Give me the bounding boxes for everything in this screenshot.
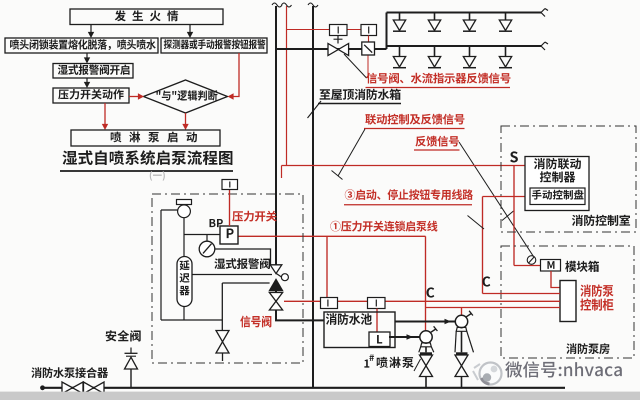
pipe: drain run [161,319,223,321]
pipe: branch line 2 [387,45,542,47]
red wire: pressure switch interlock [238,235,426,237]
dashed room: 消防控制室 [501,126,636,232]
decision diamond: 与 逻辑判断 [144,80,228,113]
red wire: module 2 to level sensor L [376,309,378,333]
flowchart box: 发生火情 [70,9,223,25]
box: fire pump control cabinet [560,281,576,322]
box: 消防联动控制器 [525,157,589,211]
sprinkler head row2 #1 [399,47,401,57]
pump 2 (spray pump) [455,315,467,327]
red label: 消防泵 [580,284,613,296]
red wire: box5 down to box6 [104,103,106,126]
red underline [366,87,511,89]
leader: 联动控制及反馈信号 to signal bus [338,129,365,176]
leader to pump 1 [414,359,421,371]
red wire: box3 down to diamond [232,53,239,97]
label: 消防泵房 [566,343,609,354]
monitor module A [330,25,348,36]
label S [510,151,518,162]
pipe: tank to pump 2 suction [395,321,455,323]
pipe: drain drop [160,210,162,320]
wet alarm valve [270,265,282,274]
red wire: manual panel line [483,196,531,198]
label: 安全阀 [106,330,141,341]
label: 模块箱 [565,261,599,272]
pressure gauge [199,241,215,257]
label C (conduit) [426,287,434,297]
title underline [60,170,233,172]
sprinkler head row1 #4 [505,13,507,20]
label C (conduit) 2 [482,276,490,286]
box: M module [541,260,561,272]
leader: 反馈信号 to module 2 [459,142,534,257]
flowchart box: 喷淋泵启动 [71,130,220,146]
red label: 控制柜 [580,299,613,311]
red label: 压力开关 [232,211,277,222]
leader tick for ③ line [468,216,485,230]
delay chamber 延迟器 [177,257,192,307]
red wire: to M box [514,265,541,267]
flowchart box: 压力开关动作 [53,88,129,103]
pipe break end 2 [541,42,548,50]
red drop to pump 2 [461,308,463,316]
pump 1 (1# spray pump) [420,331,432,343]
wire: box2 to box4 [86,53,88,60]
drain valve [216,331,229,342]
pipe: main riser to roof tank [312,6,314,388]
red underline [364,128,465,130]
red stub: indicator to module B [368,36,370,43]
pipe: station outlet to main riser and tank [276,310,325,320]
red wire: monitors to drop [287,29,362,31]
red wire: box5 to diamond [129,96,139,98]
leader: signal valve annotation [344,54,367,78]
red stub at riser [281,166,283,179]
pipe: branch riser [386,13,388,50]
red wire: manual panel drop [482,197,484,294]
title: 湿式自喷系统启泵流程图 [62,150,232,165]
label: 1#喷淋泵 [364,359,369,367]
pipe: sprinkler riser [275,6,277,265]
module 2 (level) [368,298,386,309]
signal valve (butterfly) on branch feed [328,44,338,56]
pipe: bell to drain drop [161,209,178,211]
siamese connection valves: 消防水泵接合器 [62,382,73,394]
sprinkler head row2 #4 [505,47,507,57]
stem: drain valve [221,283,223,331]
leader tick [502,211,514,221]
pipe break symbols [272,3,282,7]
flowchart box: 湿式报警阀开启 [53,64,133,79]
red leader: flow indicator annotation [367,56,369,79]
safety valve 安全阀 [130,348,132,354]
flowchart box: 探测器或手动报警按钮报警 [161,38,267,53]
signal valve (riser) [269,293,282,302]
module above station [222,180,238,190]
pipe: to pressure switch [184,234,220,236]
red label: ③启动、停止按钮专用线路 [345,189,473,200]
module symbol ② [527,256,536,265]
dashed box: alarm valve station [152,194,303,363]
faint mark [150,171,165,181]
pipe: delay chamber drain [183,307,185,321]
label: 消防控制室 [572,215,630,226]
underline [318,103,401,105]
label: 湿式报警阀 [214,258,270,269]
valve under pump 2 [455,355,468,366]
red wire: drop to module 1 [326,236,328,297]
box: level sensor L [369,332,390,347]
pipe: delay chamber to alarm valve [192,274,272,276]
sprinkler head row1 #3 [469,13,471,20]
leader slash on main riser [308,101,322,118]
module 1 (signal valve) [321,298,338,309]
label: 至屋顶消防水箱 [320,89,401,100]
sprinkler head row2 #2 [434,47,436,57]
label BP [209,219,222,227]
pipe: gauge to alarm valve [215,249,271,265]
monitor module B [361,25,377,36]
red bus: start/stop line to cabinet [483,293,561,295]
sprinkler head row1 #1 [399,13,401,20]
pipe break end 1 [541,9,548,17]
pipe: branch feed horizontal [276,48,387,50]
sprinkler head row2 #3 [469,47,471,57]
red wire: diamond down to box6 [185,113,187,126]
red label: 联动控制及反馈信号 [365,114,464,125]
wire: box1 to box3 [189,25,191,35]
pipe: pump 1 discharge [425,347,427,353]
pipe: bottom header [42,387,565,389]
dashed room: 消防泵房 [501,246,634,358]
water flow indicator [362,42,375,55]
red wire: M box to cabinet [551,271,560,288]
pipe: bell to delay chamber [183,218,185,257]
watermark logo [480,363,502,385]
label: 消防水泵接合器 [31,367,108,378]
pipe: pump 2 discharge [461,331,463,352]
red wire: module to P box [229,190,231,227]
stem: valve monitor [337,36,339,44]
box: 手动控制盘 [530,188,585,205]
pipe: riser lower section [312,320,314,387]
red underline [344,204,472,206]
red signal wire: riser drop [286,6,288,166]
wire: box4 to box5 [86,78,88,85]
red wire: feedback bus to controller S [282,165,526,167]
bottom gray bar [0,392,640,400]
wire: box1 to box2 [90,25,92,35]
red label: 信号阀、水流指示器反馈信号 [366,73,510,84]
red label: 信号阀 [240,316,271,328]
flowchart box: 喷头闭锁装置熔化脱落，喷头喷水 [5,38,158,53]
red bus: signal modules to cabinet [284,300,560,302]
red wire: S drop to module box [513,166,515,266]
red wire: drop to pump 1 [425,236,427,330]
pipe: between valves [275,291,277,293]
red label: 反馈信号 [415,136,458,147]
valve under pump 1 [420,355,433,366]
tank: 消防水池 [324,312,395,348]
watermark text [505,361,622,377]
pressure switch box P [220,226,238,244]
red bus: pump power line [426,307,561,309]
water motor alarm bell [177,200,192,205]
red label: ①压力开关连锁启泵线 [330,221,437,232]
leader tick [332,171,343,180]
pipe: tank L to pump 1 suction [389,336,420,338]
pipe: alarm valve test line [222,282,269,284]
sprinkler head row1 #2 [434,13,436,20]
pipe: branch line 1 [387,12,542,14]
red underline [414,149,460,151]
